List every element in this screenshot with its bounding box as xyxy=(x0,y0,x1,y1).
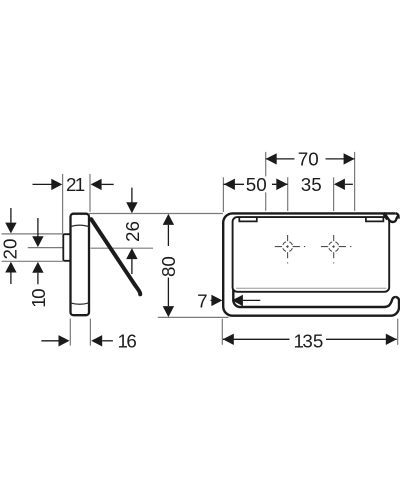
front view: left clip notch xyxy=(239,217,256,221)
extension line 50-left (body left face) xyxy=(222,177,224,212)
extension line 70-right xyxy=(354,152,356,211)
svg-text:26: 26 xyxy=(122,221,143,242)
extension line 20 bracket-top xyxy=(2,233,63,235)
svg-text:35: 35 xyxy=(301,174,322,195)
svg-text:20: 20 xyxy=(0,239,20,260)
dimension 16 xyxy=(41,331,136,352)
projection line bottom (80-dim bottom reference) xyxy=(158,316,229,318)
extension line 20/10 bracket-bottom xyxy=(2,260,63,262)
extension line 135-left xyxy=(221,319,223,345)
extension line 70-left xyxy=(265,152,267,211)
dimension 50 xyxy=(223,174,287,195)
svg-text:21: 21 xyxy=(66,174,85,195)
svg-text:80: 80 xyxy=(158,256,179,277)
reference line screw-center height (26-dim bottom) xyxy=(91,247,153,249)
dimension 20 xyxy=(0,208,20,284)
dimension 21 xyxy=(33,174,114,195)
screw mark 1 xyxy=(275,235,305,263)
extension line 16-left below side view xyxy=(69,319,71,346)
dimension 35 xyxy=(276,174,353,195)
front view: cover plate xyxy=(233,217,390,292)
projection line top (shared top edge reference) xyxy=(89,213,223,215)
svg-text:10: 10 xyxy=(28,288,49,307)
svg-text:135: 135 xyxy=(294,331,324,352)
side view: top cap seam xyxy=(71,225,89,226)
extension line 21/16-right (plate front face) xyxy=(89,174,91,212)
side view: backplate body xyxy=(71,214,90,316)
dimension 80 xyxy=(158,214,179,317)
front view: rail inner edge and channel inner-left edge xyxy=(233,252,395,307)
screw mark 2 xyxy=(321,235,351,263)
front view: thin shadow line inside plate bottom xyxy=(236,287,386,289)
dimension 7 xyxy=(197,290,260,311)
dimension 135 xyxy=(223,331,397,352)
extension line 21-left (wall plane) xyxy=(62,174,64,234)
dimension 26 xyxy=(122,188,143,274)
svg-text:70: 70 xyxy=(298,149,319,170)
dimension 70 xyxy=(266,149,355,170)
front view: right clip notch xyxy=(366,217,384,221)
extension line 16-right below side view xyxy=(89,319,91,346)
dimension 10 xyxy=(28,218,49,308)
front view: top-right lip hook (curl seen end-on) xyxy=(384,213,398,222)
side view: wall bracket xyxy=(63,234,71,261)
side view: roll-holder arm xyxy=(91,219,140,294)
svg-text:7: 7 xyxy=(197,290,207,311)
extension line screw2 xyxy=(333,177,335,211)
svg-text:50: 50 xyxy=(246,174,267,195)
side view: bottom cap seam xyxy=(71,303,89,304)
svg-text:16: 16 xyxy=(118,331,137,352)
extension line 135-right xyxy=(397,319,399,345)
extension line 20/10 bracket-center xyxy=(28,247,70,249)
front view: outer frame (top bar, left side, bottom rail) xyxy=(223,213,399,315)
extension line screw1 xyxy=(287,177,289,211)
